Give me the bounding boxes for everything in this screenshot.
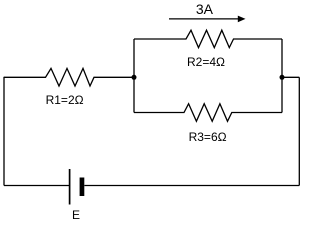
svg-text:3A: 3A [196, 1, 214, 17]
svg-text:R3=6Ω: R3=6Ω [189, 130, 227, 144]
svg-text:R1=2Ω: R1=2Ω [46, 93, 84, 107]
svg-text:E: E [72, 208, 80, 222]
svg-text:R2=4Ω: R2=4Ω [187, 55, 225, 69]
